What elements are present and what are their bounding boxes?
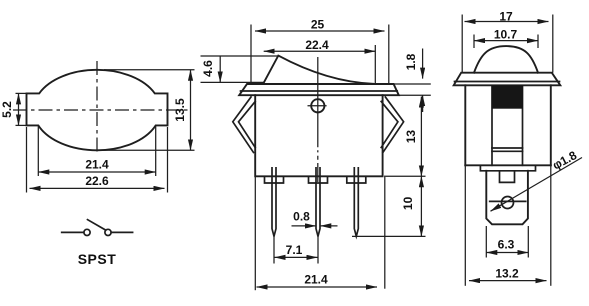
svg-text:22.6: 22.6 (85, 174, 109, 188)
dimension 1.8 lower arrow (422, 95, 424, 112)
left snap wing outer (233, 97, 254, 153)
dimension 10.7 line (474, 40, 538, 42)
left contact circle (84, 229, 90, 235)
left snap wing inner (239, 102, 256, 148)
right snap wing outer (383, 97, 404, 153)
dimension 4.6 arrow (219, 56, 221, 82)
dimension 22.4 line (264, 50, 376, 52)
dimension 5.2 line (18, 93, 20, 125)
dimension 21.4 line (38, 171, 155, 173)
upper body box sides (465, 85, 551, 165)
svg-text:5.2: 5.2 (0, 101, 14, 118)
dimension 6.3 extension lines (485, 226, 487, 258)
dimension 21.4 extension lines (body width) (254, 177, 256, 290)
dimension 21.4 line (257, 286, 378, 288)
dimension 5.2 extension lines (16, 92, 28, 94)
pivot crosshair vertical (317, 57, 319, 182)
dimension 13.5 line (190, 70, 192, 151)
dimension 17 line (465, 21, 549, 23)
terminal 1 pin (272, 183, 276, 236)
collar bar (480, 165, 535, 171)
dimension 13.5 extension lines (104, 69, 195, 71)
terminal 2 rivet (316, 168, 320, 183)
svg-text:22.4: 22.4 (305, 38, 329, 52)
dimension 4.6 extension lines (201, 55, 279, 57)
dimension 22.6 extension lines (26, 127, 28, 193)
dimension 0.8 right arrow (320, 225, 337, 227)
vertical centerline (96, 61, 98, 152)
terminal neck rect (500, 171, 515, 183)
dimension 1.8 extension lines (394, 83, 431, 85)
svg-text:13.5: 13.5 (173, 98, 187, 122)
horizontal centerline (13, 109, 190, 111)
svg-text:10: 10 (401, 196, 415, 210)
terminal hole (502, 197, 514, 209)
black rocker slot (492, 85, 524, 108)
dimension 7.1 line (275, 256, 318, 258)
dimension 17 extension lines (461, 15, 463, 73)
switch body outline: union of ellipse and side tabs (27, 70, 168, 150)
dimension 25 line (255, 30, 385, 32)
left lead wire (62, 231, 84, 233)
lower section (486, 171, 528, 225)
dimension 10 extension line (352, 235, 426, 237)
flange outline (239, 84, 399, 95)
upper body box bottom (465, 164, 551, 166)
svg-text:0.8: 0.8 (293, 210, 310, 224)
svg-text:13: 13 (404, 130, 418, 144)
dimension 22.6 line (30, 187, 165, 189)
svg-text:1.8: 1.8 (404, 53, 418, 70)
body outline (255, 95, 382, 176)
dimension 21.4 extension lines (37, 126, 39, 176)
dimension 10 line (420, 176, 422, 236)
svg-text:13.2: 13.2 (495, 266, 519, 280)
pivot crosshair horizontal (308, 105, 327, 107)
flange (side) (454, 73, 561, 86)
leader line for hole diameter (491, 158, 583, 212)
channel inner step (492, 148, 523, 151)
terminal 1 rivet (272, 168, 276, 183)
dimension 6.3 line (486, 252, 528, 254)
dimension 0.8 left arrow (292, 225, 317, 227)
dimension 13 line (420, 97, 422, 177)
svg-text:21.4: 21.4 (85, 158, 109, 172)
terminal 3 tab (347, 176, 366, 183)
terminal 1 tab (265, 176, 284, 183)
flange inner line (241, 90, 398, 92)
switch lever (88, 220, 106, 231)
terminal 3 pin (354, 183, 358, 236)
svg-text:6.3: 6.3 (498, 238, 515, 252)
dimension 10.7 extension lines (473, 35, 475, 49)
svg-text:4.6: 4.6 (201, 60, 215, 77)
dimension 22.4 extension lines (374, 45, 376, 84)
dimension 13.2 line (469, 280, 547, 282)
svg-text:25: 25 (311, 18, 325, 32)
svg-text:7.1: 7.1 (286, 243, 303, 257)
line through hole (490, 200, 526, 202)
dimension 1.8 upper arrow (422, 49, 424, 79)
rocker slot channel (492, 85, 523, 165)
svg-text:21.4: 21.4 (304, 273, 328, 287)
pin tip extension lines for 7.1 (273, 238, 275, 264)
dimension 25 extension lines (250, 25, 252, 84)
terminal 2 pin (316, 183, 320, 236)
right contact circle (105, 229, 111, 235)
rocker dome (474, 46, 538, 73)
svg-text:17: 17 (499, 10, 513, 24)
rocker actuator (264, 56, 373, 84)
svg-text:SPST: SPST (78, 251, 117, 267)
svg-text:10.7: 10.7 (494, 27, 518, 41)
right lead wire (111, 231, 132, 233)
terminal 2 tab (309, 176, 328, 183)
flange inner line (455, 81, 560, 83)
terminal 3 rivet (354, 168, 358, 183)
dimension 13.2 extension lines (464, 166, 466, 286)
right snap wing inner (381, 102, 398, 148)
dimension 13 extension line (384, 175, 426, 177)
pivot circle (311, 99, 324, 112)
